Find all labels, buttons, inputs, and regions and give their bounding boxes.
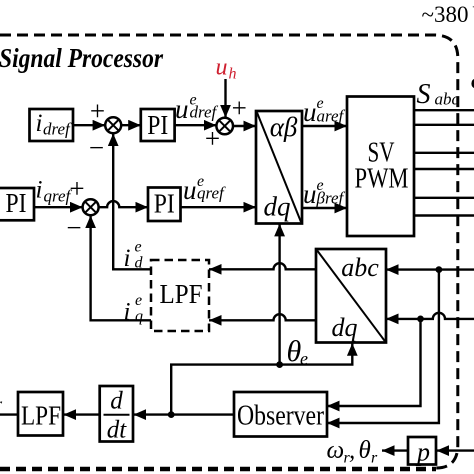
svg-text:PI: PI bbox=[6, 188, 27, 218]
node junction ia bbox=[436, 266, 443, 273]
block Observer bbox=[234, 392, 327, 437]
summing junction sum3 bbox=[83, 199, 99, 215]
wire encoder to p bbox=[437, 449, 474, 451]
wire i_dref to sum1 bbox=[73, 124, 105, 126]
svg-text:+: + bbox=[232, 93, 247, 123]
svg-text:abc: abc bbox=[341, 253, 379, 282]
block abc to dq transform bbox=[316, 249, 386, 343]
wire ib down to observer bbox=[327, 319, 421, 406]
block PI q-axis left (cut off) bbox=[0, 188, 34, 220]
wire ia down to observer bbox=[327, 270, 439, 423]
wire PI q to dq/ab transform bbox=[181, 206, 257, 208]
block p bbox=[408, 437, 436, 465]
wire current b into abc/dq with hop bbox=[386, 313, 474, 319]
wire u_h injection arrow bbox=[224, 79, 226, 118]
wire gate line 1 bbox=[414, 109, 474, 111]
block LPF2 bbox=[18, 392, 63, 436]
wire gate line 6 bbox=[414, 214, 474, 216]
svg-text:+: + bbox=[205, 124, 220, 154]
summing junction sum2 bbox=[216, 118, 233, 135]
wire current a into abc/dq bbox=[386, 268, 474, 270]
svg-text:Signal Processor: Signal Processor bbox=[0, 42, 163, 73]
svg-text:+: + bbox=[69, 174, 84, 204]
block dq to alpha-beta transform bbox=[256, 111, 302, 224]
wire iq to LPF with hop bbox=[209, 314, 316, 320]
label i partial at right edge bbox=[471, 79, 474, 88]
block d/dt bbox=[100, 386, 133, 442]
node junction observer output bbox=[168, 411, 175, 418]
wire sum2 to dq/ab transform bbox=[233, 125, 256, 127]
wire gate line 4 bbox=[414, 168, 474, 170]
svg-text:LPF: LPF bbox=[160, 279, 203, 309]
wire PI left to sum3 bbox=[34, 206, 83, 208]
svg-text:−: − bbox=[66, 213, 81, 243]
block PI d-axis bbox=[141, 109, 175, 141]
block LPF dashed bbox=[151, 260, 209, 331]
svg-text:p: p bbox=[415, 438, 430, 467]
wire LPF to sum1 feedback bbox=[113, 134, 151, 270]
summing junction sum1 bbox=[105, 117, 121, 133]
svg-text:ωr,θr: ωr,θr bbox=[327, 437, 379, 467]
wire d/dt to LPF2 bbox=[64, 413, 100, 415]
wire uaref to SVPWM bbox=[302, 125, 347, 127]
svg-text:dt: dt bbox=[107, 417, 128, 444]
svg-text:+: + bbox=[90, 96, 105, 126]
svg-text:αβ: αβ bbox=[270, 112, 298, 142]
wire gate line 3 bbox=[414, 152, 474, 154]
block i_dref bbox=[30, 109, 74, 141]
node junction ib bbox=[417, 316, 424, 323]
wire p out arrow bbox=[382, 449, 408, 451]
node junction theta bbox=[276, 361, 283, 368]
wire theta_e up to dq/ab bbox=[278, 224, 280, 365]
svg-text:d: d bbox=[110, 388, 123, 415]
wire PI d to sum2 bbox=[175, 124, 217, 126]
wire ubref to SVPWM bbox=[302, 207, 347, 209]
svg-text:PWM: PWM bbox=[355, 163, 409, 195]
block PI q bbox=[148, 188, 181, 222]
wire LPF to sum3 feedback bbox=[91, 216, 151, 321]
wire sum1 to PI d bbox=[121, 124, 141, 126]
wire gate line 2 bbox=[414, 124, 474, 126]
svg-text:PI: PI bbox=[147, 110, 168, 140]
DSP boundary dashed border bottom bbox=[0, 467, 436, 472]
svg-text:Observer: Observer bbox=[237, 400, 324, 432]
wire theta_e branch to observer output line bbox=[171, 365, 279, 415]
block SV PWM bbox=[347, 97, 414, 237]
svg-text:dq: dq bbox=[264, 192, 291, 222]
svg-text:−: − bbox=[89, 133, 104, 163]
wire gate line 5 bbox=[414, 197, 474, 199]
svg-text:dq: dq bbox=[332, 313, 358, 342]
wire theta_e to abc/dq bbox=[280, 343, 353, 364]
svg-text:~380: ~380 bbox=[422, 2, 469, 27]
wire LPF2 out to left edge bbox=[0, 413, 18, 415]
svg-text:PI: PI bbox=[154, 189, 175, 219]
svg-text:LPF: LPF bbox=[21, 401, 61, 431]
wire id to LPF with hop bbox=[209, 263, 316, 269]
wire sum3 to PI q with hop bbox=[99, 201, 148, 207]
wire observer to d/dt bbox=[134, 413, 235, 415]
